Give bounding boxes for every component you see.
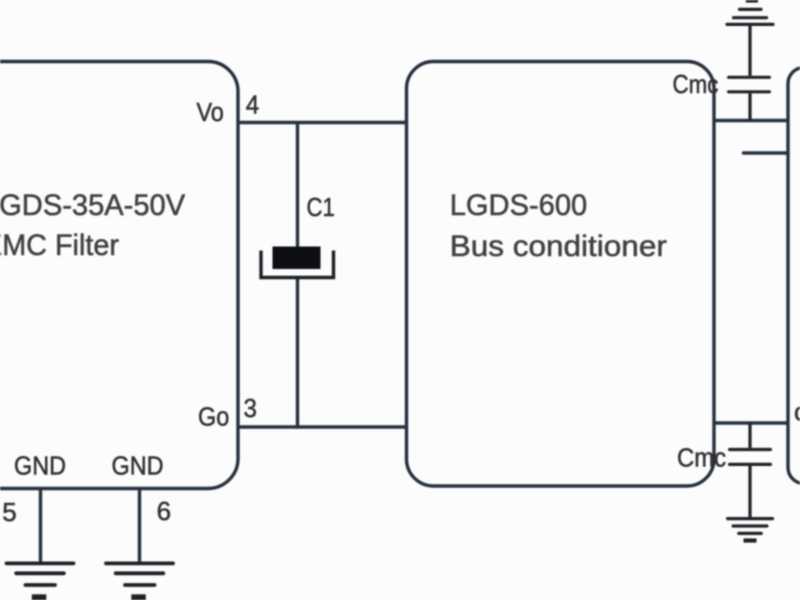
U3 partial label fragment [794, 397, 800, 427]
svg-text:GND: GND [112, 452, 164, 480]
svg-text:6: 6 [157, 496, 171, 526]
svg-text:Go: Go [198, 403, 229, 431]
svg-text:c: c [794, 397, 800, 427]
wire Vo net [238, 121, 407, 124]
svg-text:LGDS-35A-50V: LGDS-35A-50V [0, 189, 185, 222]
svg-text:EMC Filter: EMC Filter [0, 228, 119, 262]
ground pin5 [7, 563, 74, 600]
svg-text:5: 5 [2, 497, 16, 527]
wire Cmc top lower lead [748, 93, 751, 120]
wire GND pin 6 stub [138, 489, 141, 564]
svg-text:Cmc: Cmc [677, 443, 726, 472]
label C1 [307, 193, 335, 222]
capacitor Cmc bottom [730, 450, 771, 465]
pin label Go [198, 403, 229, 431]
wire GND pin 5 stub [39, 489, 42, 564]
ground top inverted [727, 0, 773, 24]
svg-text:C1: C1 [307, 193, 335, 222]
right box U3 [788, 68, 800, 484]
bus conditioner box U2 [407, 62, 715, 487]
wire U3 second pin stub [744, 151, 789, 154]
U1 title EMC Filter [0, 228, 119, 262]
wire Cmc bottom upper lead [748, 423, 751, 448]
wire C1 top [296, 123, 299, 251]
wire Cmc top upper lead [748, 23, 751, 76]
U1 title LGDS-35A-50V [0, 189, 185, 222]
EMC filter box U1 [0, 62, 238, 489]
label Cmc bottom [677, 443, 726, 472]
pin number 3 [244, 394, 257, 423]
capacitor C1 [261, 247, 334, 278]
label Cmc top [673, 70, 719, 99]
svg-text:Bus conditioner: Bus conditioner [450, 228, 667, 262]
wire C1 bottom [296, 278, 299, 428]
pin number 4 [246, 91, 259, 120]
label GND pin5 [14, 452, 66, 480]
U2 title LGDS-600 [450, 189, 587, 222]
ground pin6 [106, 563, 173, 600]
pin label Vo [197, 99, 224, 127]
svg-text:4: 4 [246, 91, 259, 120]
svg-text:Cmc: Cmc [673, 70, 719, 99]
svg-text:GND: GND [14, 452, 66, 480]
wire Go net [238, 425, 407, 428]
svg-text:3: 3 [244, 394, 257, 423]
label GND pin6 [112, 452, 164, 480]
ground bottom right [728, 519, 773, 543]
wire U2 pin right bottom to U3 [714, 421, 788, 424]
pin number 6 [157, 496, 171, 526]
wire Cmc bottom lower lead [748, 466, 751, 517]
U2 title Bus conditioner [450, 228, 667, 262]
pin number 5 [2, 497, 16, 527]
svg-text:LGDS-600: LGDS-600 [450, 189, 587, 222]
capacitor Cmc top [729, 77, 770, 92]
wire U2 pin4 to U3 top [714, 119, 788, 122]
svg-text:Vo: Vo [197, 99, 224, 127]
